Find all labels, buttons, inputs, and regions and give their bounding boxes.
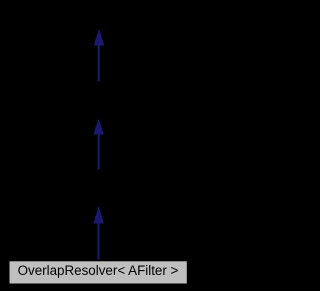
node OverlapResolver< AFilter > (current class, grey box) bbox=[9, 261, 187, 284]
node intermediate base 1 (invisible black-on-black) bbox=[40, 82, 158, 118]
svg-text:OverlapResolver< AFilter >: OverlapResolver< AFilter > bbox=[18, 263, 179, 278]
inheritance arrow 2 bbox=[93, 119, 104, 170]
inheritance arrow 3 bbox=[93, 206, 104, 260]
node intermediate base 2 (invisible black-on-black) bbox=[40, 170, 158, 206]
node AFilter (top, invisible black-on-black) bbox=[60, 4, 138, 28]
inheritance arrow 1 bbox=[94, 29, 105, 82]
